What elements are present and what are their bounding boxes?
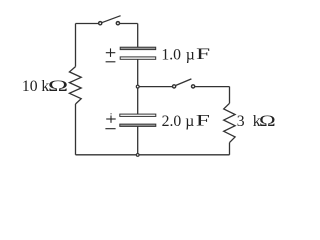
svg-text:3: 3: [237, 113, 245, 130]
svg-text:Ω: Ω: [259, 113, 276, 130]
svg-text:µ: µ: [185, 113, 194, 130]
svg-text:F: F: [196, 111, 210, 129]
svg-text:1.0: 1.0: [161, 47, 181, 64]
svg-text:2.0: 2.0: [162, 113, 182, 130]
svg-text:µ: µ: [186, 47, 195, 64]
svg-text:10: 10: [22, 78, 38, 95]
svg-text:Ω: Ω: [48, 77, 68, 95]
svg-text:F: F: [196, 45, 210, 63]
